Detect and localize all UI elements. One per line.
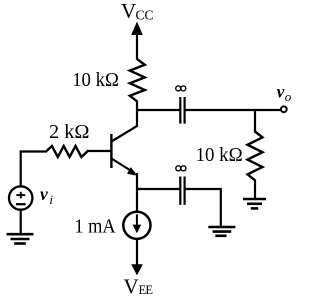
- wire vi to RB: [21, 152, 47, 187]
- svg-text:10 kΩ: 10 kΩ: [196, 144, 243, 166]
- svg-text:10 kΩ: 10 kΩ: [72, 69, 119, 91]
- source vi: [9, 186, 32, 209]
- wire emitter down and to C2: [136, 173, 138, 212]
- svg-text:V: V: [124, 275, 139, 299]
- wire RC bottom to collector: [136, 101, 138, 128]
- VCC label: [121, 0, 154, 23]
- svg-text:2 kΩ: 2 kΩ: [49, 121, 90, 143]
- transistor Q1 base bar: [110, 134, 112, 168]
- resistor RC 10 kOhm (top): [130, 59, 145, 101]
- wire base to bar: [87, 150, 111, 152]
- ground (C2): [208, 227, 235, 236]
- VCC power arrow: [131, 22, 143, 60]
- svg-text:EE: EE: [139, 283, 154, 297]
- svg-text:i: i: [49, 192, 53, 207]
- VEE power arrow: [131, 264, 143, 275]
- current source I1: [123, 212, 150, 239]
- wire vi to ground: [20, 210, 22, 234]
- VEE label: [124, 275, 154, 299]
- svg-text:V: V: [121, 0, 136, 23]
- wire C1 to output terminal: [185, 109, 281, 111]
- transistor Q1 emitter line with arrow: [111, 159, 137, 176]
- resistor RB 2 kOhm: [46, 146, 87, 157]
- label vo: [277, 82, 292, 104]
- svg-text:v: v: [277, 82, 285, 102]
- wire emitter node to C2: [136, 188, 181, 190]
- svg-text:o: o: [285, 89, 292, 104]
- resistor RL 10 kOhm (right): [248, 132, 263, 181]
- ground (vi): [7, 234, 34, 243]
- capacitor C2: [180, 177, 184, 205]
- wire collector node to C1: [136, 109, 181, 111]
- transistor Q1 collector line: [111, 126, 137, 142]
- capacitor C1: [180, 97, 184, 124]
- wire RL to ground: [254, 180, 256, 200]
- terminal vo (open circle): [281, 106, 287, 112]
- ground (RL): [243, 199, 266, 208]
- wire I1 to VEE arrow: [136, 239, 138, 268]
- label infinity (C2): [176, 166, 186, 171]
- svg-text:CC: CC: [136, 8, 154, 23]
- label vi: [40, 184, 53, 207]
- wire C2 to ground: [185, 189, 221, 226]
- label infinity (C1): [176, 86, 186, 91]
- svg-text:v: v: [40, 184, 48, 204]
- wire output node down to RL: [254, 109, 256, 133]
- svg-text:1 mA: 1 mA: [74, 216, 115, 238]
